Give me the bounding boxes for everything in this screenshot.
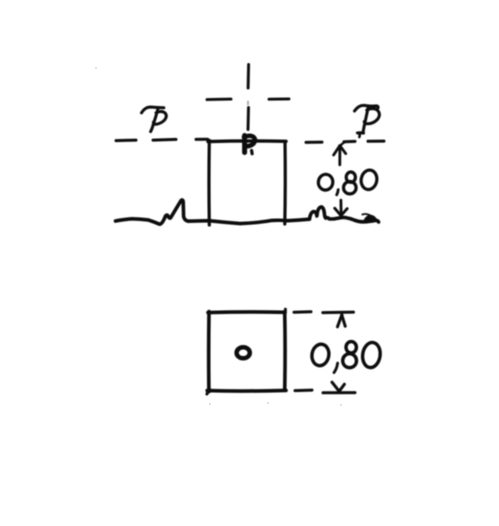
text 0.80 (plan): [310, 341, 382, 372]
ground end wave crest: [364, 215, 377, 222]
dim line bottom (plan): [295, 382, 355, 393]
column mark (circle in plan): [237, 347, 250, 358]
dimension arrow down (elevation 0.80): [335, 200, 348, 215]
dashed line right (y=141.5): [306, 141, 384, 142]
dashed line left (y=140): [116, 139, 208, 140]
pedestal box (elevation): [208, 140, 286, 225]
dimension arrow up (elevation 0.80): [334, 142, 346, 165]
label P right: [355, 105, 380, 137]
crosshair horizontal dashes: [207, 97, 289, 101]
load P (bold, on top of box): [244, 136, 255, 154]
ground line (wavy): [116, 200, 379, 224]
dim line top (plan): [294, 312, 354, 327]
label P left: [142, 107, 167, 132]
footing square (plan): [207, 309, 286, 394]
text 0.80 (elevation): [317, 169, 378, 195]
faint scan specks: [95, 67, 342, 406]
centerline (vertical dashed): [247, 65, 251, 130]
